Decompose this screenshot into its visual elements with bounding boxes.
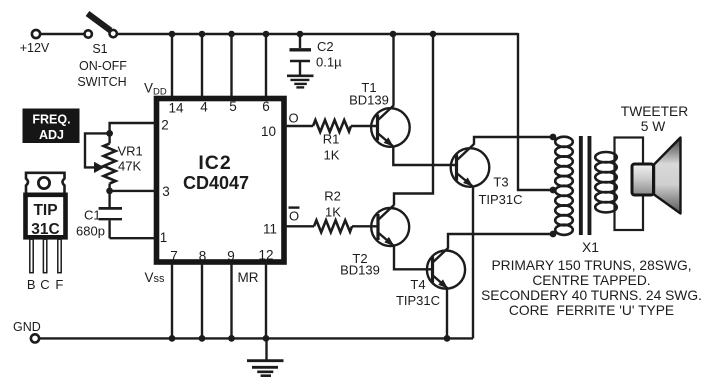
svg-text:TIP31C: TIP31C [478, 192, 522, 207]
node primary centre tap [550, 187, 557, 194]
transistor T4 TIP31C [396, 248, 465, 308]
svg-text:Vss: Vss [145, 270, 166, 285]
wire R1 to T1 base [351, 125, 377, 127]
capacitor C1 680p [76, 191, 122, 239]
transformer core [579, 136, 592, 235]
ground below C2 [287, 76, 314, 88]
wire T2 emitter to T4 base [394, 245, 433, 269]
svg-text:C: C [40, 277, 49, 292]
transformer description text [481, 258, 702, 318]
speaker cone [654, 138, 681, 214]
node T4 emitter rail junction [444, 335, 451, 342]
svg-text:1K: 1K [325, 205, 341, 220]
node Obar output pin11 [289, 208, 300, 224]
node pin4 rail junction [199, 31, 206, 38]
svg-text:7: 7 [170, 249, 178, 264]
wire pin3 [110, 190, 156, 192]
svg-text:SWITCH: SWITCH [77, 75, 126, 89]
svg-text:11: 11 [263, 222, 277, 237]
svg-text:5: 5 [229, 99, 237, 114]
speaker magnet [632, 164, 654, 195]
svg-text:MR: MR [238, 270, 259, 285]
wire pin5 drop [230, 34, 232, 96]
node FREQ ADJ callout [23, 109, 80, 144]
node T1 collector rail junction [390, 31, 397, 38]
svg-text:C1: C1 [84, 208, 101, 223]
svg-text:+12V: +12V [20, 41, 50, 55]
node VR1 bottom / pin3 junction [106, 188, 113, 195]
node C2 rail junction [297, 31, 304, 38]
svg-text:31C: 31C [31, 221, 59, 238]
resistor R2 1K [314, 189, 352, 233]
svg-text:TIP31C: TIP31C [396, 293, 440, 308]
wire pin6 drop [265, 34, 267, 96]
transistor T2 BD139 [340, 205, 409, 278]
svg-text:O: O [289, 209, 299, 224]
wire R2 to T2 base [352, 225, 378, 227]
svg-text:4: 4 [200, 100, 208, 115]
svg-text:CENTRE TAPPED.: CENTRE TAPPED. [532, 273, 650, 288]
wire pin2 to VR1 top [110, 123, 156, 133]
svg-text:TIP: TIP [33, 202, 57, 219]
wire top +12V rail [117, 33, 518, 35]
svg-text:B: B [27, 277, 36, 292]
svg-text:PRIMARY 150 TRUNS, 28SWG,: PRIMARY 150 TRUNS, 28SWG, [491, 258, 691, 273]
svg-text:12: 12 [258, 248, 273, 263]
svg-text:1K: 1K [324, 148, 340, 163]
wire pin7 drop [171, 262, 173, 338]
node pin7 rail junction [169, 335, 176, 342]
op-amp/IC body IC2 CD4047 [157, 99, 285, 263]
svg-text:T4: T4 [410, 277, 425, 292]
svg-text:9: 9 [227, 249, 235, 264]
node pin9 rail junction [228, 335, 235, 342]
wire C1 to pin1 [110, 237, 156, 239]
wire pin11 to R2 [284, 225, 314, 227]
potentiometer VR1 47K [85, 133, 143, 191]
svg-text:6: 6 [262, 99, 270, 114]
wire T1 collector to rail [392, 34, 394, 106]
wire T3 collector to transformer top tap [474, 137, 553, 144]
svg-text:X1: X1 [582, 240, 599, 255]
terminal +12V [32, 30, 40, 38]
ground symbol below rail [247, 338, 284, 375]
transistor package drawing TIP31C [26, 173, 66, 292]
node pin6 rail junction [263, 31, 270, 38]
wire pin10 to R1 [284, 125, 313, 127]
svg-text:IC2: IC2 [198, 152, 231, 174]
wire pin8 drop [201, 262, 203, 338]
svg-text:TWEETER: TWEETER [621, 104, 688, 119]
wire T1 emitter to T3 base [393, 146, 456, 166]
svg-text:C2: C2 [317, 39, 334, 54]
wire +12V to S1 [41, 33, 85, 35]
capacitor C2 0.1u [290, 34, 343, 75]
svg-text:S1: S1 [92, 42, 107, 56]
wire T3 emitter down to ground rail [472, 186, 474, 339]
node pin12 rail junction [263, 335, 270, 342]
transistor T1 BD139 [349, 80, 410, 149]
node primary top tap [550, 134, 557, 141]
wire pin9 drop [230, 262, 232, 338]
node pin14 rail junction [169, 31, 176, 38]
svg-text:47K: 47K [118, 159, 141, 174]
transformer X1 primary winding [555, 137, 573, 235]
switch S1 ON-OFF [77, 14, 127, 90]
wire T4 emitter to ground rail [446, 289, 448, 339]
svg-text:1: 1 [160, 230, 168, 245]
node VR1 top junction [106, 130, 113, 137]
wire T2 collector to rail [394, 34, 433, 205]
svg-text:CORE FERRITE 'U' TYPE: CORE FERRITE 'U' TYPE [509, 303, 674, 318]
svg-text:ADJ: ADJ [39, 128, 64, 142]
svg-text:BD139: BD139 [340, 263, 380, 278]
speaker frame [615, 138, 644, 231]
svg-text:680p: 680p [76, 224, 105, 239]
svg-text:SECONDERY 40 TURNS. 24 SWG.: SECONDERY 40 TURNS. 24 SWG. [481, 288, 702, 303]
svg-text:ON-OFF: ON-OFF [79, 59, 127, 73]
svg-text:10: 10 [261, 124, 276, 139]
svg-text:FREQ.: FREQ. [32, 113, 70, 127]
svg-text:5 W: 5 W [641, 119, 666, 134]
svg-text:R1: R1 [323, 132, 340, 147]
wire pin14 drop [171, 34, 173, 96]
svg-text:T3: T3 [493, 175, 508, 190]
svg-text:14: 14 [168, 101, 184, 116]
svg-text:VR1: VR1 [118, 144, 143, 159]
wire pin4 drop [201, 34, 203, 96]
resistor R1 1K [313, 120, 351, 163]
wire ground rail [40, 337, 474, 339]
svg-text:R2: R2 [324, 189, 341, 204]
svg-text:BD139: BD139 [349, 93, 389, 108]
terminal GND [31, 334, 39, 342]
wire pin12 drop [265, 262, 267, 338]
transformer X1 secondary winding [595, 152, 617, 212]
node pin5 rail junction [228, 31, 235, 38]
node pin8 rail junction [199, 335, 206, 342]
svg-text:3: 3 [162, 184, 170, 199]
svg-text:F: F [55, 277, 63, 292]
transistor T3 TIP31C [451, 144, 523, 207]
svg-text:8: 8 [199, 249, 207, 264]
svg-text:CD4047: CD4047 [183, 173, 249, 193]
svg-text:O: O [289, 111, 299, 126]
svg-text:0.1µ: 0.1µ [316, 55, 342, 70]
svg-text:2: 2 [161, 118, 169, 133]
node primary bottom tap [550, 231, 557, 238]
wire T4 collector to transformer bottom tap [448, 234, 553, 248]
svg-text:GND: GND [13, 320, 41, 334]
wire rail drop to transformer centre tap [518, 33, 553, 190]
node T2 collector rail junction [430, 31, 437, 38]
